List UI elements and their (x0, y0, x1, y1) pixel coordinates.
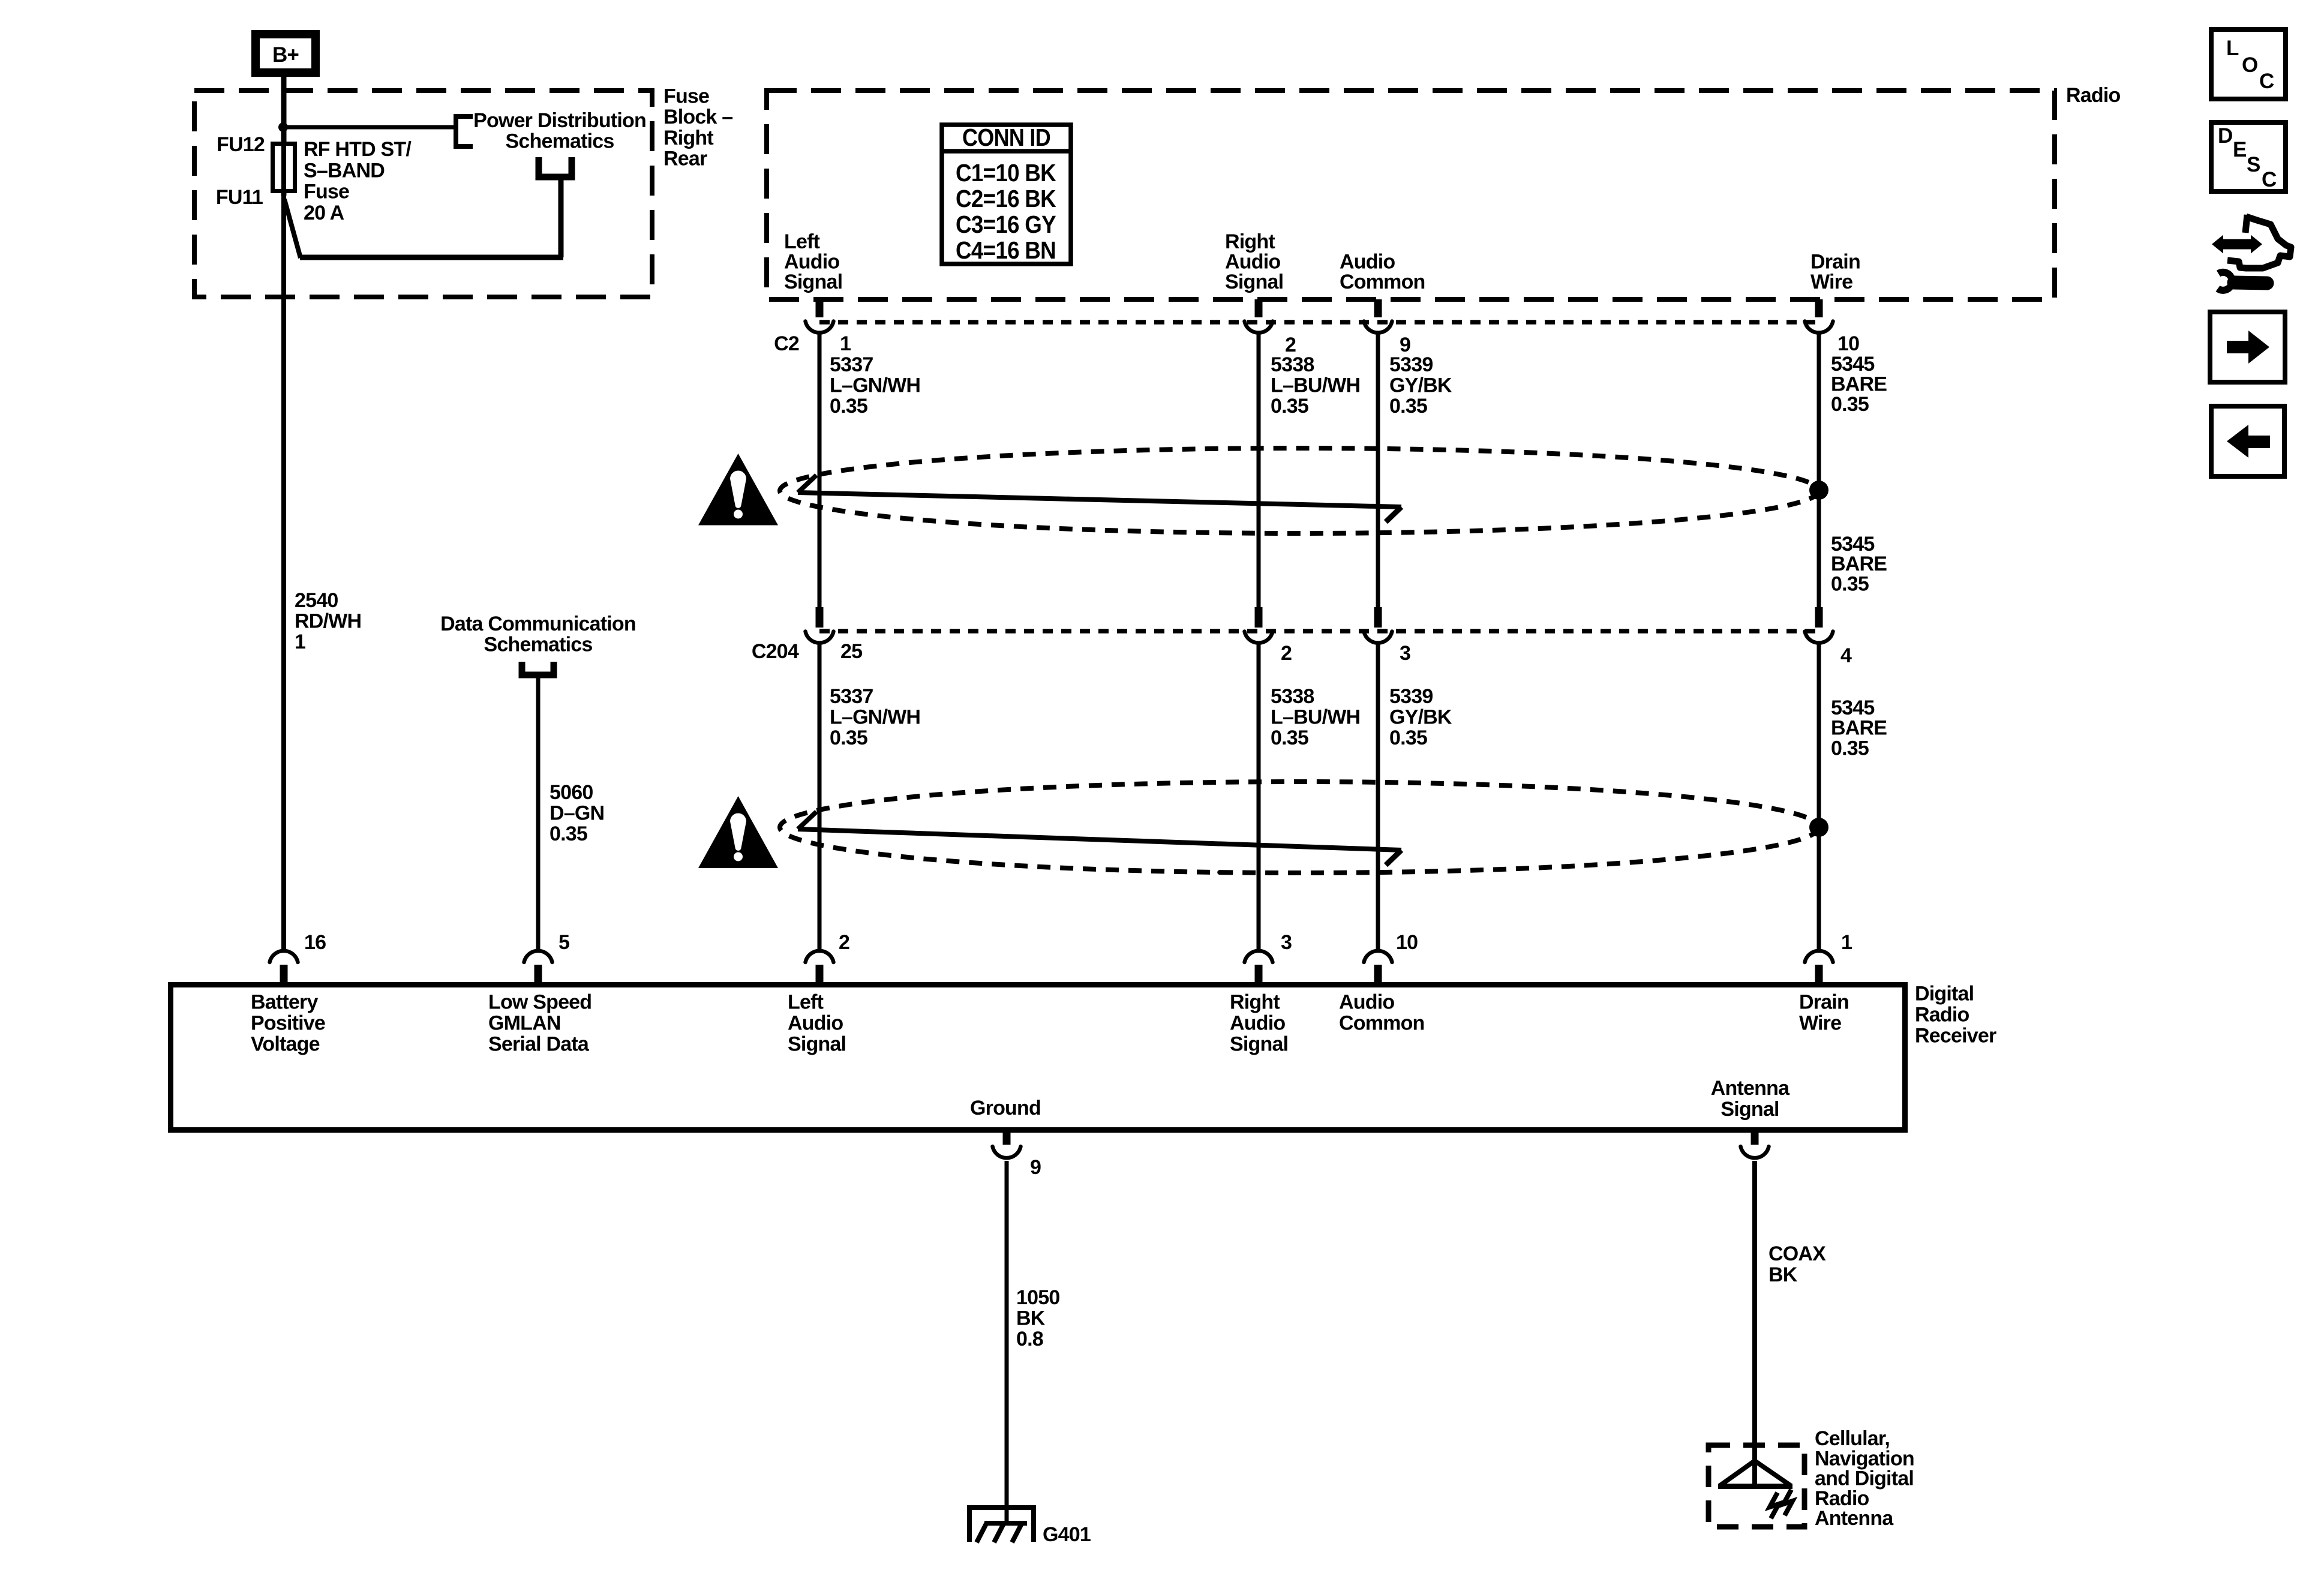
bracket to Power Distribution Schematics (456, 116, 473, 146)
wire branch to power distribution (283, 125, 454, 130)
svg-text:C: C (2259, 70, 2274, 93)
svg-text:D: D (2218, 124, 2232, 148)
svg-text:AntennaSignal: AntennaSignal (1711, 1077, 1790, 1121)
twisted pair arrow 1 (798, 475, 1401, 522)
warning triangle 2 (698, 796, 778, 868)
wire 5060 serial data down to receiver (536, 678, 541, 950)
svg-text:10: 10 (1396, 931, 1418, 954)
svg-text:C204: C204 (752, 640, 799, 663)
receiver terminal GMLAN serial data (524, 951, 553, 962)
connector C204 terminal right audio (1245, 632, 1273, 643)
svg-text:1: 1 (840, 332, 851, 355)
svg-text:Radio: Radio (2066, 84, 2120, 107)
connector C204 terminal drain (1805, 632, 1833, 643)
icon back arrow (2211, 406, 2284, 476)
svg-text:FU12: FU12 (217, 133, 265, 156)
icon symptoms (wrench and arrows) (2212, 215, 2291, 290)
svg-text:4: 4 (1840, 644, 1852, 667)
antenna symbol (1718, 1461, 1792, 1518)
svg-text:S: S (2247, 153, 2260, 176)
connector C204 stub right audio (1255, 607, 1263, 628)
node B+ battery positive symbol (256, 34, 316, 73)
staple continuation symbol (data communication) (522, 662, 554, 675)
connector C2 terminal audio common (1364, 322, 1392, 333)
connector C2 stub audio common (1374, 299, 1382, 317)
junction dot drain/shield upper (1809, 481, 1828, 500)
wire right audio signal (C2-C204) (1257, 334, 1261, 608)
wire COAX antenna signal (1752, 1161, 1757, 1487)
wire 2540 battery feed down to receiver (281, 193, 286, 950)
svg-text:CONN ID: CONN ID (962, 124, 1050, 151)
connector C2 stub left audio (816, 299, 824, 317)
receiver terminal ground (993, 1146, 1021, 1158)
svg-text:3: 3 (1400, 642, 1410, 665)
ground symbol G401 (967, 1505, 1036, 1542)
svg-text:G401: G401 (1043, 1523, 1091, 1546)
warning triangle 1 (698, 454, 778, 526)
connector C204 stub audio common (1374, 607, 1382, 628)
wire horizontal to fuse output (300, 255, 563, 260)
svg-text:B+: B+ (272, 43, 299, 67)
connector C204 stub drain (1815, 607, 1823, 628)
svg-text:1: 1 (1841, 931, 1852, 954)
component box antenna (dashed) (1709, 1445, 1804, 1527)
receiver terminal audio common (1364, 951, 1392, 962)
staple continuation symbol (power distribution) (539, 157, 572, 177)
svg-text:RightAudioSignal: RightAudioSignal (1230, 991, 1288, 1056)
receiver stub drain wire (1815, 965, 1823, 984)
wire audio common (C204-receiver) (1376, 644, 1380, 950)
svg-text:16: 16 (304, 931, 326, 954)
icon forward arrow (2210, 312, 2285, 382)
svg-text:10: 10 (1837, 332, 1859, 355)
junction dot B+ branch (278, 122, 288, 132)
svg-text:BatteryPositiveVoltage: BatteryPositiveVoltage (251, 991, 325, 1056)
receiver stub antenna signal (1751, 1130, 1759, 1145)
wire from staple down (559, 180, 564, 257)
connector C2 terminal right audio (1245, 322, 1273, 333)
receiver stub ground (1003, 1130, 1011, 1145)
svg-text:Ground: Ground (970, 1097, 1041, 1119)
svg-text:RightAudioSignal: RightAudioSignal (1225, 230, 1283, 293)
component box Digital Radio Receiver (171, 985, 1905, 1130)
receiver stub right audio (1255, 965, 1263, 984)
svg-text:L: L (2226, 37, 2239, 60)
wire audio common (C2-C204) (1376, 334, 1380, 608)
svg-text:9: 9 (1030, 1156, 1041, 1179)
connector C204 stub left audio (816, 607, 824, 628)
svg-text:5: 5 (559, 931, 569, 954)
receiver terminal battery positive (270, 951, 298, 962)
wire drain 5345 (C204-receiver) (1817, 644, 1821, 950)
svg-text:25: 25 (840, 640, 862, 663)
connector C204 terminal audio common (1364, 632, 1392, 643)
connector C2 stub drain (1815, 299, 1823, 317)
svg-text:C1=10 BKC2=16 BKC3=16 GYC4=16: C1=10 BKC2=16 BKC3=16 GYC4=16 BN (956, 159, 1056, 264)
icon LOC (2211, 29, 2286, 99)
svg-text:C2: C2 (774, 332, 799, 355)
dotted connector line C2 (819, 320, 1819, 325)
svg-text:2: 2 (839, 931, 849, 954)
CONN ID table (942, 124, 1071, 264)
svg-text:C: C (2262, 168, 2277, 191)
svg-text:3: 3 (1281, 931, 1292, 954)
receiver stub audio common (1374, 965, 1382, 984)
wire left audio signal (C2-C204) (818, 334, 822, 608)
dotted connector line C204 (819, 629, 1819, 634)
connector C204 terminal left audio (806, 632, 834, 643)
component box Fuse Block - Right Rear (194, 91, 652, 297)
svg-text:FU11: FU11 (216, 186, 263, 209)
wire 1050 ground (1005, 1161, 1009, 1523)
receiver stub GMLAN serial data (535, 965, 542, 984)
component box Radio (dashed) (767, 91, 2055, 299)
icon DESC (2211, 122, 2286, 191)
wire left audio signal (C204-receiver) (818, 644, 822, 950)
receiver terminal drain wire (1805, 951, 1833, 962)
receiver terminal antenna signal (1741, 1146, 1769, 1158)
svg-text:O: O (2242, 53, 2257, 77)
connector C2 stub right audio (1255, 299, 1263, 317)
twisted/shielded pair ellipse 1 (780, 448, 1819, 533)
twisted pair arrow 2 (798, 812, 1401, 865)
connector C2 terminal drain (1805, 322, 1833, 333)
junction dot drain/shield lower (1809, 818, 1828, 837)
receiver stub left audio (816, 965, 824, 984)
wire B+ feed down into fuse block (281, 77, 287, 143)
fuse FU12/FU11 RF HTD ST/S-BAND 20 A (273, 142, 295, 196)
receiver terminal right audio (1245, 951, 1273, 962)
svg-text:E: E (2233, 138, 2247, 161)
svg-text:2: 2 (1281, 642, 1292, 665)
receiver terminal left audio (806, 951, 834, 962)
wire diagonal from fuse FU11 (284, 199, 301, 258)
twisted/shielded pair ellipse 2 (780, 782, 1819, 873)
wire drain 5345 (C2-C204) (1817, 334, 1821, 608)
wire right audio signal (C204-receiver) (1257, 644, 1261, 950)
connector C2 terminal left audio (806, 322, 834, 333)
receiver stub battery positive (280, 965, 288, 984)
